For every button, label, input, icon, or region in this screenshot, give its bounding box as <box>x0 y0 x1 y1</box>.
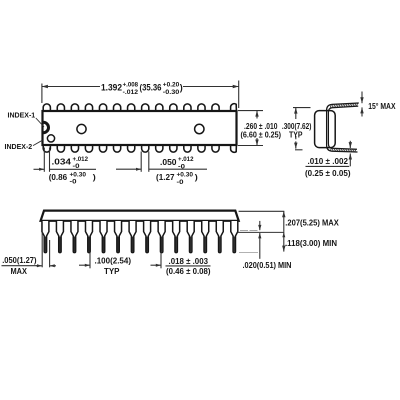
svg-text:1.392: 1.392 <box>101 83 122 93</box>
svg-text:.118(3.00) MIN: .118(3.00) MIN <box>285 238 337 248</box>
svg-text:+0.30: +0.30 <box>70 171 87 178</box>
svg-text:): ) <box>195 172 198 182</box>
svg-text:15° MAX: 15° MAX <box>368 102 396 111</box>
svg-text:-0: -0 <box>178 163 186 170</box>
svg-text:.207(5.25) MAX: .207(5.25) MAX <box>285 217 339 227</box>
svg-text:(1.27: (1.27 <box>156 172 175 182</box>
svg-text:+0.30: +0.30 <box>177 172 194 179</box>
svg-text:.010 ± .002: .010 ± .002 <box>308 156 349 166</box>
svg-text:+0.20: +0.20 <box>163 82 180 89</box>
svg-text:INDEX-2: INDEX-2 <box>5 142 33 151</box>
svg-text:-0: -0 <box>73 163 81 170</box>
svg-text:): ) <box>180 83 183 93</box>
svg-text:.034: .034 <box>52 157 72 167</box>
svg-text:(6.60 ± 0.25): (6.60 ± 0.25) <box>241 129 282 139</box>
svg-text:.018 ± .003: .018 ± .003 <box>169 256 209 266</box>
svg-text:-0: -0 <box>70 179 78 186</box>
svg-text:(0.25 ± 0.05): (0.25 ± 0.05) <box>305 168 351 178</box>
svg-text:+.008: +.008 <box>123 82 139 89</box>
svg-text:MAX: MAX <box>11 266 28 276</box>
svg-text:-0.30: -0.30 <box>163 89 180 96</box>
svg-text:+.012: +.012 <box>178 156 194 163</box>
svg-text:.100(2.54): .100(2.54) <box>95 256 132 266</box>
svg-text:(0.86: (0.86 <box>49 172 68 182</box>
svg-text:(35.36: (35.36 <box>140 83 162 93</box>
svg-text:TYP: TYP <box>289 130 303 140</box>
svg-text:INDEX-1: INDEX-1 <box>8 111 36 120</box>
svg-text:-.012: -.012 <box>123 89 139 96</box>
svg-text:TYP: TYP <box>104 266 120 276</box>
svg-text:.050: .050 <box>160 157 177 167</box>
svg-text:): ) <box>93 172 96 182</box>
svg-text:.050(1.27): .050(1.27) <box>2 255 36 265</box>
svg-text:-0: -0 <box>177 179 185 186</box>
svg-text:.020(0.51) MIN: .020(0.51) MIN <box>243 260 292 270</box>
svg-text:+.012: +.012 <box>73 156 89 163</box>
svg-text:(0.46 ± 0.08): (0.46 ± 0.08) <box>166 266 211 276</box>
